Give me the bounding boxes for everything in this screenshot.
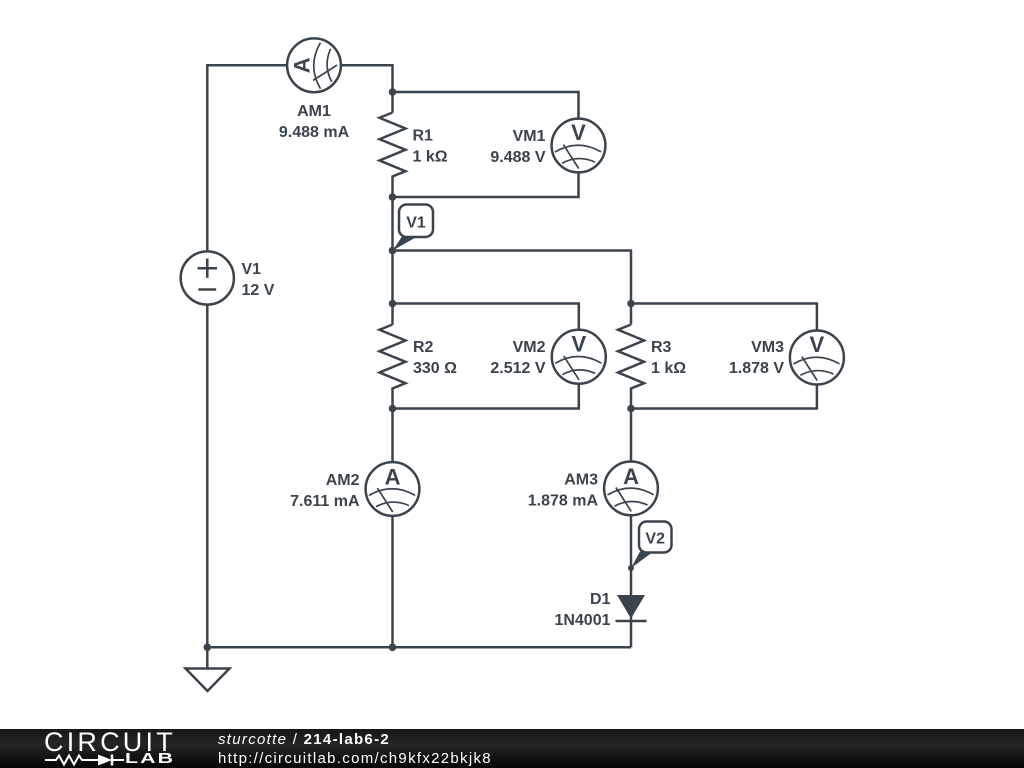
svg-text:R3: R3 xyxy=(651,339,672,356)
svg-text:9.488 V: 9.488 V xyxy=(490,149,545,166)
svg-text:330 Ω: 330 Ω xyxy=(413,360,457,377)
svg-text:AM3: AM3 xyxy=(564,472,598,489)
svg-text:12 V: 12 V xyxy=(242,282,275,299)
svg-text:R2: R2 xyxy=(413,339,434,356)
svg-text:AM1: AM1 xyxy=(297,103,331,120)
svg-text:VM3: VM3 xyxy=(751,339,784,356)
svg-text:V2: V2 xyxy=(645,531,665,548)
svg-text:7.611 mA: 7.611 mA xyxy=(290,493,360,510)
svg-text:VM2: VM2 xyxy=(513,339,546,356)
svg-text:1.878 V: 1.878 V xyxy=(729,360,784,377)
svg-text:A: A xyxy=(623,464,639,489)
svg-text:R1: R1 xyxy=(413,128,434,145)
svg-text:AM2: AM2 xyxy=(326,472,360,489)
svg-text:V: V xyxy=(810,332,825,357)
svg-text:V1: V1 xyxy=(406,215,426,232)
svg-text:D1: D1 xyxy=(590,591,611,608)
svg-text:VM1: VM1 xyxy=(513,128,546,145)
svg-text:1 kΩ: 1 kΩ xyxy=(413,149,448,166)
svg-text:V: V xyxy=(571,120,586,145)
svg-text:2.512 V: 2.512 V xyxy=(490,360,545,377)
svg-text:1.878 mA: 1.878 mA xyxy=(528,493,599,510)
svg-text:V1: V1 xyxy=(242,261,262,278)
svg-text:A: A xyxy=(385,465,401,490)
svg-text:1N4001: 1N4001 xyxy=(554,612,610,629)
svg-text:1 kΩ: 1 kΩ xyxy=(651,360,686,377)
svg-text:A: A xyxy=(290,57,315,73)
svg-text:V: V xyxy=(571,331,586,356)
svg-text:9.488 mA: 9.488 mA xyxy=(279,124,350,141)
